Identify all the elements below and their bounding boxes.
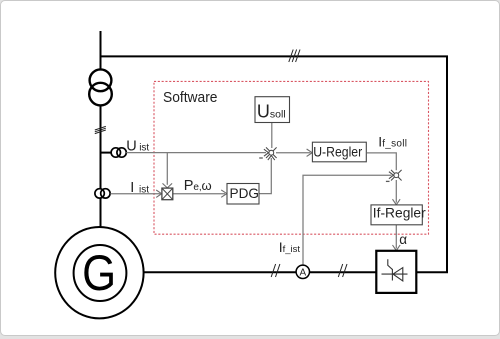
svg-text:U-Regler: U-Regler — [313, 144, 362, 159]
svg-text:A: A — [300, 267, 307, 278]
svg-text:α: α — [399, 232, 407, 247]
svg-text:ist: ist — [139, 143, 149, 154]
svg-text:ω: ω — [202, 178, 212, 193]
svg-text:I: I — [130, 180, 134, 196]
svg-text:Software: Software — [163, 89, 218, 106]
svg-text:If-Regler: If-Regler — [373, 206, 426, 221]
svg-text:PDG: PDG — [230, 186, 259, 201]
svg-text:U: U — [126, 138, 136, 154]
svg-text:If_soll: If_soll — [378, 133, 407, 149]
svg-text:G: G — [82, 245, 116, 301]
svg-text:ist: ist — [139, 184, 149, 195]
svg-text:Pe,: Pe, — [184, 178, 202, 194]
svg-text:If_ist: If_ist — [279, 239, 301, 255]
